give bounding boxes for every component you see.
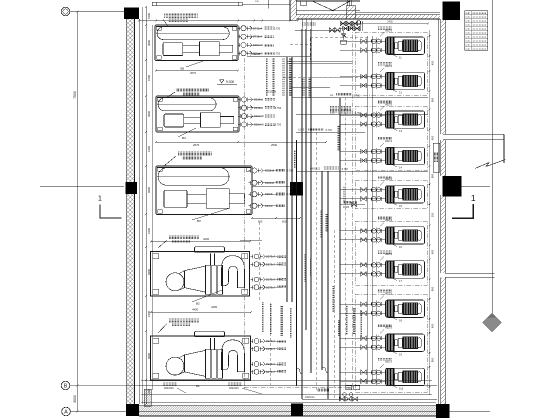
valve train leader text <box>302 23 316 26</box>
svg-text:-5.750: -5.750 <box>341 168 348 171</box>
grid line center segment <box>252 185 290 187</box>
right opening lower <box>445 272 495 274</box>
svg-text:-5.750: -5.750 <box>325 129 332 132</box>
pump P6 label <box>378 216 392 219</box>
chiller B5 valves <box>241 26 246 31</box>
chiller B5 shaft <box>183 46 200 52</box>
valve area dashed box <box>310 37 370 39</box>
pump P6 motor <box>403 230 418 242</box>
bottom riser hatch <box>144 389 151 406</box>
svg-text:1: 1 <box>98 196 102 203</box>
svg-text:9.000: 9.000 <box>226 80 234 84</box>
svg-text:800: 800 <box>431 286 435 291</box>
pump P5 label <box>378 175 392 178</box>
svg-text:A: A <box>64 410 68 416</box>
pump P10 label <box>378 358 392 361</box>
pump P3 suction valves <box>361 113 366 117</box>
pump P7 inlet line <box>376 261 378 277</box>
gallery boundary dash-dot right <box>351 26 353 390</box>
pump P4 base frame <box>386 147 425 164</box>
pump P6 connection lines <box>340 230 386 232</box>
grid line A right segment <box>449 410 490 412</box>
pump P7 volute <box>387 261 394 278</box>
chiller B4 valves <box>241 97 246 102</box>
top dim line <box>139 20 298 22</box>
pump P3 motor <box>403 114 418 126</box>
chiller B3 stub <box>229 194 244 204</box>
gallery boundary dash-dot left <box>243 58 245 390</box>
pump P5 suction valves <box>361 188 366 192</box>
top X brace <box>312 1 333 11</box>
svg-text:3000: 3000 <box>73 395 77 403</box>
gallery vertical pipes <box>286 57 288 302</box>
chiller B3 label leader <box>178 151 212 155</box>
chiller B3 tank <box>158 168 229 185</box>
svg-text:4450: 4450 <box>192 308 199 312</box>
chiller B2 discharge elbow <box>222 256 245 288</box>
chiller B5 tank <box>157 27 229 40</box>
pump P1 suction valves <box>361 39 366 43</box>
pump P10 base frame <box>386 368 425 385</box>
pump P9 motor <box>403 337 418 349</box>
chiller B2 plinth <box>195 247 225 253</box>
pump P9 coupling <box>395 340 398 346</box>
chiller B2 riser pipes <box>210 254 212 266</box>
chiller B4 frame <box>156 96 239 132</box>
pump P1 motor cap <box>418 41 422 51</box>
pump P10 volute <box>387 369 394 386</box>
pump P4 motor <box>403 150 418 162</box>
sump label <box>343 201 357 204</box>
svg-text:A02-3: A02-3 <box>385 326 392 330</box>
chiller B4 top rail <box>157 96 238 98</box>
pump P5 connection lines <box>340 189 386 191</box>
pump P2 volute <box>387 73 394 90</box>
chiller B2 valves <box>254 254 259 259</box>
svg-text:4200: 4200 <box>203 237 210 241</box>
pipe labels rotated mid <box>302 78 305 96</box>
pump P10 motor cap <box>418 372 422 382</box>
pump P2 motor <box>403 75 418 87</box>
svg-text:A02-3: A02-3 <box>385 64 392 68</box>
svg-text:800: 800 <box>431 97 435 102</box>
chiller B5 anchor pads <box>157 27 162 31</box>
chiller B3 shaft <box>187 195 206 204</box>
pump P4 coupling <box>395 153 398 159</box>
pump P3 connection lines <box>340 114 386 116</box>
svg-text:A02-3: A02-3 <box>385 360 392 364</box>
svg-text:3600: 3600 <box>147 40 151 46</box>
pump dimension ticks <box>429 30 431 395</box>
pump P5 volute <box>387 186 394 203</box>
svg-text:B2: B2 <box>196 302 200 306</box>
valve train line <box>295 29 340 31</box>
pump P9 motor cap <box>418 338 422 348</box>
pump P8 connection lines <box>340 303 386 305</box>
strainer symbol <box>341 34 345 38</box>
svg-text:1500: 1500 <box>147 13 151 19</box>
chiller B5 compressor <box>163 43 183 56</box>
top wall <box>296 15 440 19</box>
pump P4 volute <box>387 148 394 165</box>
top tick mark <box>267 0 269 9</box>
svg-text:3600: 3600 <box>147 111 151 117</box>
chiller B5 frame <box>155 25 238 61</box>
chiller B5 top rail <box>156 25 237 27</box>
pump P4 inlet line <box>376 148 378 164</box>
chiller B3 valves <box>252 168 257 173</box>
pump P5 motor <box>403 189 418 201</box>
top beam bar <box>152 2 242 5</box>
svg-text:800: 800 <box>431 173 435 178</box>
pump P2 inlet line <box>376 73 378 89</box>
svg-text:200x200: 200x200 <box>164 387 174 390</box>
chiller B2 suction elbow <box>166 273 184 291</box>
pump P3 motor cap <box>418 115 422 125</box>
vertical grid datum line <box>77 12 79 412</box>
chiller B2 rib section <box>206 265 211 294</box>
svg-text:D426x12: D426x12 <box>305 396 315 399</box>
pump P8 inlet line <box>376 301 378 317</box>
reference diamond <box>483 313 502 332</box>
top beam line right <box>242 3 290 5</box>
svg-text:1500: 1500 <box>147 75 151 81</box>
svg-text:B5: B5 <box>181 67 185 71</box>
chiller B3 motor <box>206 189 229 208</box>
right wall <box>441 19 446 134</box>
pump P6 suction valves <box>361 229 366 233</box>
pump P9 suction valves <box>361 336 366 340</box>
chiller B1 casing <box>185 350 206 376</box>
pump P5 coupling <box>395 191 398 197</box>
pump P7 coupling <box>395 266 398 272</box>
dim 4450 <box>151 311 251 313</box>
pump group dashed enclosures <box>355 32 428 95</box>
pump P2 base frame <box>386 72 425 89</box>
pump P10 coupling <box>395 374 398 380</box>
svg-text:B4: B4 <box>182 136 186 140</box>
chiller B1 plinth <box>195 331 225 337</box>
svg-text:450: 450 <box>431 60 435 65</box>
svg-text:DN70: DN70 <box>346 388 352 390</box>
chiller B4 stub <box>220 117 233 124</box>
valve train bowtie pair <box>329 28 334 32</box>
chiller B1 label leader <box>169 319 199 323</box>
svg-text:3675: 3675 <box>190 71 196 75</box>
svg-text:A02-3: A02-3 <box>385 139 392 143</box>
chiller B1 discharge elbow <box>222 340 245 372</box>
bottom wall <box>139 406 436 416</box>
svg-text:1500: 1500 <box>147 228 151 234</box>
svg-text:DN25: DN25 <box>343 206 350 209</box>
svg-text:D426x12: D426x12 <box>310 167 321 170</box>
column center <box>290 182 303 195</box>
pump dim line top <box>362 23 428 25</box>
left dimension chain line <box>142 7 144 404</box>
pump P10 motor <box>403 371 418 383</box>
pump P4 connection lines <box>340 151 386 153</box>
pipe break symbol <box>475 160 506 169</box>
column bottom-left <box>126 404 139 416</box>
pipe labels rotated lower cluster <box>262 302 265 332</box>
bottom pipe lines <box>141 380 432 382</box>
pipe U hook <box>322 367 328 373</box>
chiller B3 compressor <box>164 190 187 207</box>
svg-text:-5.750: -5.750 <box>274 107 282 110</box>
column bottom-right <box>436 404 449 418</box>
svg-text:1400: 1400 <box>147 146 151 152</box>
right vertical boundary line <box>491 0 493 313</box>
svg-text:-5.750: -5.750 <box>274 124 282 127</box>
svg-text:2500: 2500 <box>271 143 278 147</box>
pump P10 connection lines <box>340 371 386 373</box>
column bottom-mid <box>291 404 303 417</box>
chiller B2 casing <box>185 266 206 292</box>
chiller B1 frame <box>151 336 251 380</box>
gallery boundary dash-dot bottom <box>244 386 352 388</box>
top wall corner <box>290 0 296 21</box>
chiller B4 motor <box>201 113 221 127</box>
right outer wall line <box>503 134 505 163</box>
bottom valve cluster <box>339 397 344 401</box>
chiller B4 compressor <box>164 114 184 127</box>
svg-text:-5.750: -5.750 <box>273 27 281 30</box>
svg-text:2670: 2670 <box>193 143 200 147</box>
svg-text:4800: 4800 <box>147 187 151 193</box>
gallery elbows <box>301 29 303 38</box>
svg-text:800: 800 <box>431 357 435 362</box>
air handling room label <box>330 106 352 113</box>
legend table <box>465 11 488 51</box>
svg-text:L2G5: L2G5 <box>298 128 305 131</box>
pump P1 base frame <box>386 37 425 54</box>
grid line B <box>70 385 437 387</box>
pump P7 motor <box>403 264 418 276</box>
gallery dashed pipes <box>315 132 317 390</box>
chiller B4 anchor pads <box>158 98 163 102</box>
chiller B5 motor <box>200 42 220 56</box>
pump P7 base frame <box>386 261 425 278</box>
dim line below B5 <box>156 70 238 72</box>
svg-text:-5.750: -5.750 <box>273 52 281 55</box>
grid bubble A <box>62 407 71 416</box>
pump P5 motor cap <box>418 189 422 199</box>
pump P8 motor cap <box>418 304 422 314</box>
grid line mid-left <box>40 185 124 187</box>
pump P2 motor cap <box>418 76 422 86</box>
pump P3 label <box>378 101 392 104</box>
grid bubble C <box>61 7 70 16</box>
chiller B4 tank <box>158 98 216 111</box>
valve cluster <box>340 21 346 26</box>
svg-text:B: B <box>64 384 68 390</box>
bottom small boxes <box>346 385 352 390</box>
pipe U hook 2 <box>297 368 303 374</box>
pump P6 motor cap <box>418 231 422 241</box>
pump P8 base frame <box>386 300 425 317</box>
svg-text:A02-3: A02-3 <box>385 252 392 256</box>
pump P9 connection lines <box>340 337 386 339</box>
pump P1 inlet line <box>376 38 378 54</box>
top pier verticals <box>347 0 349 6</box>
drain label 3 <box>317 389 329 392</box>
pump P1 volute <box>387 37 394 54</box>
pump P4 label <box>378 137 392 140</box>
drain label 1 <box>163 383 177 386</box>
top riser pipes <box>301 19 303 30</box>
top brace chord lines <box>296 0 312 2</box>
grid line A <box>70 411 126 413</box>
top brace box <box>301 1 307 5</box>
svg-text:A02-3: A02-3 <box>385 218 392 222</box>
pump P1 coupling <box>395 43 398 49</box>
duct riser JH <box>433 143 440 172</box>
pump P7 connection lines <box>340 264 386 266</box>
pump P6 volute <box>387 227 394 244</box>
pump P9 base frame <box>386 334 425 351</box>
pump P3 coupling <box>395 117 398 123</box>
svg-text:200x200: 200x200 <box>229 387 239 390</box>
grid line C <box>70 11 124 13</box>
chiller B1 suction elbow <box>166 357 184 375</box>
pump P2 connection lines <box>340 76 386 78</box>
grid bubble B <box>61 381 70 390</box>
svg-text:450: 450 <box>431 135 435 140</box>
svg-text:110: 110 <box>399 386 404 390</box>
top pier <box>346 6 355 19</box>
pump P5 base frame <box>386 186 425 203</box>
pump P4 motor cap <box>418 151 422 161</box>
pump P8 label <box>378 290 392 293</box>
svg-text:1: 1 <box>471 193 476 203</box>
svg-text:450: 450 <box>431 323 435 328</box>
chiller stub pipes <box>249 27 263 29</box>
svg-text:A02-3: A02-3 <box>385 292 392 296</box>
pump P6 base frame <box>386 227 425 244</box>
svg-text:2400: 2400 <box>387 21 393 24</box>
svg-text:600: 600 <box>258 220 263 224</box>
pump suction headers <box>367 36 369 384</box>
pump P1 label <box>378 27 392 30</box>
pump P3 volute <box>387 111 394 128</box>
chiller B2 corner pads <box>153 254 159 259</box>
pump P8 motor <box>403 303 418 315</box>
svg-text:600: 600 <box>282 220 287 224</box>
pump P2 label <box>378 62 392 65</box>
chiller B3 frame <box>156 166 252 215</box>
pump P7 motor cap <box>418 265 422 275</box>
svg-text:D325x8: D325x8 <box>267 91 276 94</box>
chiller B1 corner pads <box>153 338 159 343</box>
pump P6 inlet line <box>376 227 378 243</box>
chiller B1 rib section <box>206 349 211 378</box>
sump valve <box>340 204 365 206</box>
pump P9 inlet line <box>376 335 378 351</box>
svg-text:LG: LG <box>330 94 333 97</box>
pump P3 inlet line <box>376 112 378 128</box>
pump P4 suction valves <box>361 149 366 153</box>
pipe labels rotated lower right <box>346 305 349 335</box>
right opening upper <box>443 133 504 135</box>
pump P10 inlet line <box>376 369 378 385</box>
gallery horizontal runs <box>247 56 311 58</box>
pump P2 suction valves <box>361 74 366 78</box>
svg-text:7500: 7500 <box>73 91 77 99</box>
pump P9 volute <box>387 334 394 351</box>
chiller B3 anchor pads <box>158 168 163 172</box>
svg-text:B3: B3 <box>197 219 201 223</box>
svg-text:250: 250 <box>431 212 435 217</box>
pump P9 label <box>378 324 392 327</box>
column top-left <box>124 8 139 20</box>
dim 600 600 <box>252 217 300 219</box>
chiller B5 label leader <box>164 14 198 18</box>
pump P1 motor <box>403 40 418 52</box>
chiller B1 valves <box>254 339 259 344</box>
svg-text:1500: 1500 <box>147 311 151 317</box>
column top-right <box>443 2 461 21</box>
dim 2670 <box>156 141 326 143</box>
chiller B5 stub <box>219 45 232 52</box>
pump P10 suction valves <box>361 370 366 374</box>
svg-text:4450: 4450 <box>211 305 218 309</box>
pump P1 connection lines <box>340 40 386 42</box>
chiller B1 riser pipes <box>210 338 212 350</box>
svg-text:A02-3: A02-3 <box>385 177 392 181</box>
pump P8 suction valves <box>361 302 366 306</box>
pump P7 label <box>378 250 392 253</box>
pump P7 suction valves <box>361 263 366 267</box>
pipe labels rotated upper cluster <box>266 58 269 96</box>
dim 4200 <box>151 241 250 243</box>
column mid-left <box>126 182 138 194</box>
pump P3 base frame <box>386 111 425 128</box>
chiller B2 label leader <box>169 235 199 239</box>
chiller B2 frame <box>151 252 250 297</box>
chiller B4 label leader <box>176 88 209 92</box>
pump P8 coupling <box>395 306 398 312</box>
svg-text:D325x8: D325x8 <box>252 53 261 56</box>
chiller B3 top rail <box>157 166 251 168</box>
pump P5 inlet line <box>376 186 378 202</box>
svg-text:450: 450 <box>431 249 435 254</box>
pump P6 coupling <box>395 232 398 238</box>
column mid-right <box>443 176 462 197</box>
drain label 2 <box>228 383 242 386</box>
elevation -9.000 <box>220 80 225 84</box>
grid line segment right of column <box>461 185 490 187</box>
left wall <box>126 19 134 404</box>
pump P8 volute <box>387 300 394 317</box>
chiller B4 shaft <box>184 117 201 123</box>
pump P2 coupling <box>395 78 398 84</box>
